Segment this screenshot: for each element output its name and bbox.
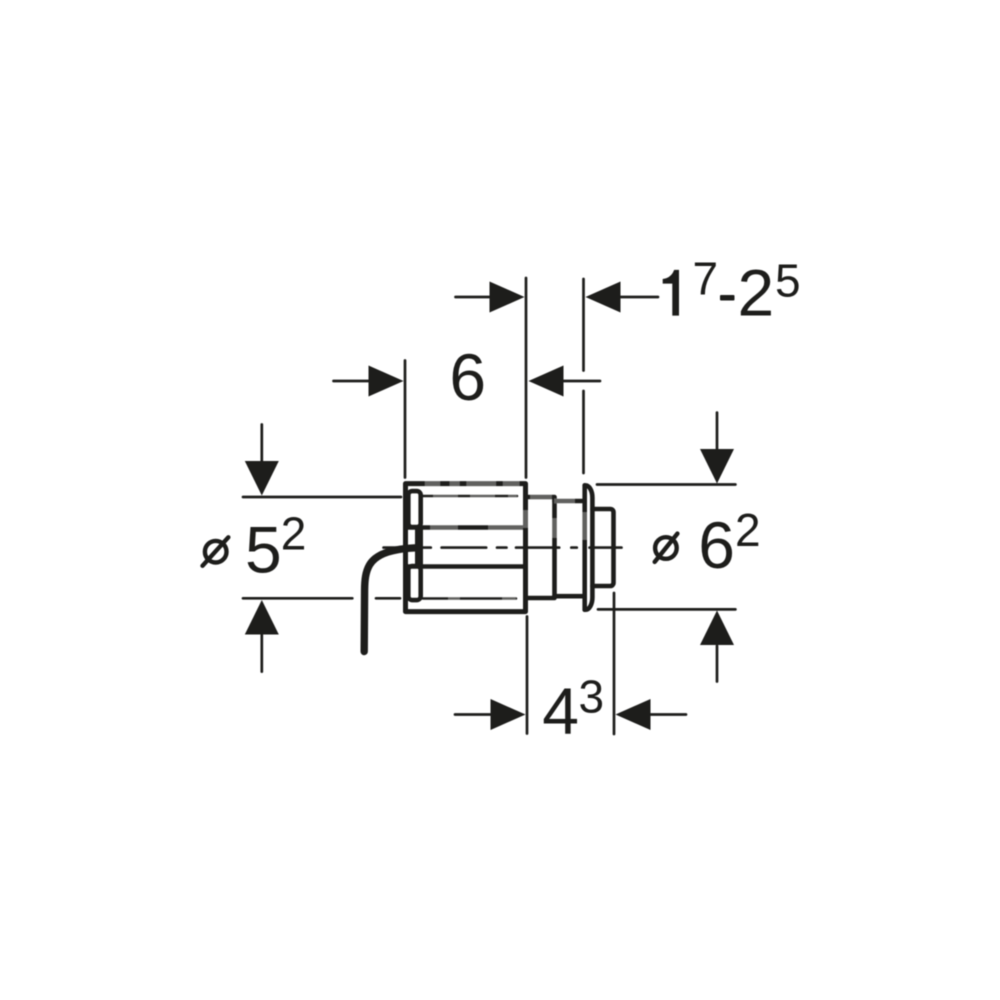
- dia52 up arrow stem: [260, 635, 263, 672]
- ext line x526 above body: [525, 278, 528, 478]
- ext line dia52 bottom right: [376, 597, 400, 600]
- svg-text:5: 5: [775, 255, 801, 307]
- svg-text:7: 7: [693, 253, 719, 305]
- body inner bottom line: [423, 597, 516, 600]
- ext line dia52 bottom left: [243, 597, 352, 600]
- label 17-25: [663, 270, 679, 316]
- cable: [364, 548, 416, 652]
- ext line x405 above body: [404, 361, 407, 478]
- ext line x583.5 above body upper: [582, 279, 585, 371]
- ext line dia62 bottom: [598, 608, 735, 611]
- dim 6 right tail: [564, 380, 601, 383]
- flange left edge: [582, 485, 587, 609]
- dia62 up arrow stem: [716, 646, 719, 682]
- ext line dia62 top: [597, 483, 735, 486]
- watermark lightening patches: [425, 484, 585, 599]
- body mid upper line: [406, 525, 526, 530]
- arrow dim43 right-pointing: [491, 699, 526, 730]
- diameter symbol 62: [655, 534, 678, 562]
- top clip: [408, 491, 420, 527]
- arrow dia62 up-pointing: [700, 611, 734, 646]
- arrow dim6 left-pointing: [529, 366, 564, 397]
- flange: [585, 485, 593, 609]
- neck bottom line: [555, 594, 585, 599]
- bottom clip: [408, 566, 420, 600]
- dim 43 left tail: [455, 713, 491, 716]
- svg-text:3: 3: [579, 671, 605, 723]
- ring section: [526, 497, 555, 598]
- arrow dia52 down-pointing: [245, 461, 279, 496]
- arrow dia52 up-pointing: [245, 600, 279, 635]
- arrow dim17-25 right-pointing: [490, 282, 525, 313]
- arrow dim17-25 left-pointing: [586, 282, 621, 313]
- ext line dia52 top: [243, 496, 401, 499]
- ext line x583.5 above body lower: [582, 391, 585, 473]
- svg-text:2: 2: [738, 256, 775, 330]
- arrow dim6 right-pointing: [369, 366, 404, 397]
- svg-text:2: 2: [735, 504, 761, 556]
- ext line x527 below body: [526, 617, 529, 734]
- dim 17-25 left tail: [456, 296, 491, 299]
- svg-text:6: 6: [449, 340, 486, 414]
- extension lines: [243, 278, 735, 734]
- clip connecting bar: [415, 529, 423, 565]
- dim 43 right tail: [651, 713, 687, 716]
- ext line x614 below button: [613, 593, 616, 734]
- svg-text:4: 4: [542, 674, 579, 748]
- dia52 down arrow stem: [260, 425, 263, 462]
- body inner top line: [422, 495, 517, 498]
- main body cylinder: [406, 484, 526, 612]
- diameter symbol 52: [203, 537, 229, 566]
- dimension tails: [262, 297, 717, 715]
- arrow dim43 left-pointing: [616, 699, 651, 730]
- push button: [593, 509, 614, 586]
- neck top line: [555, 499, 585, 504]
- arrow dia62 down-pointing: [700, 449, 734, 484]
- body mid lower line: [406, 564, 526, 569]
- center axis line: [384, 546, 622, 549]
- dim 6 left tail: [334, 380, 370, 383]
- dia62 down arrow stem: [716, 413, 719, 449]
- svg-text:6: 6: [698, 508, 735, 582]
- svg-text:2: 2: [281, 508, 307, 560]
- dim 17-25 right tail: [621, 296, 659, 299]
- svg-text:5: 5: [245, 513, 282, 587]
